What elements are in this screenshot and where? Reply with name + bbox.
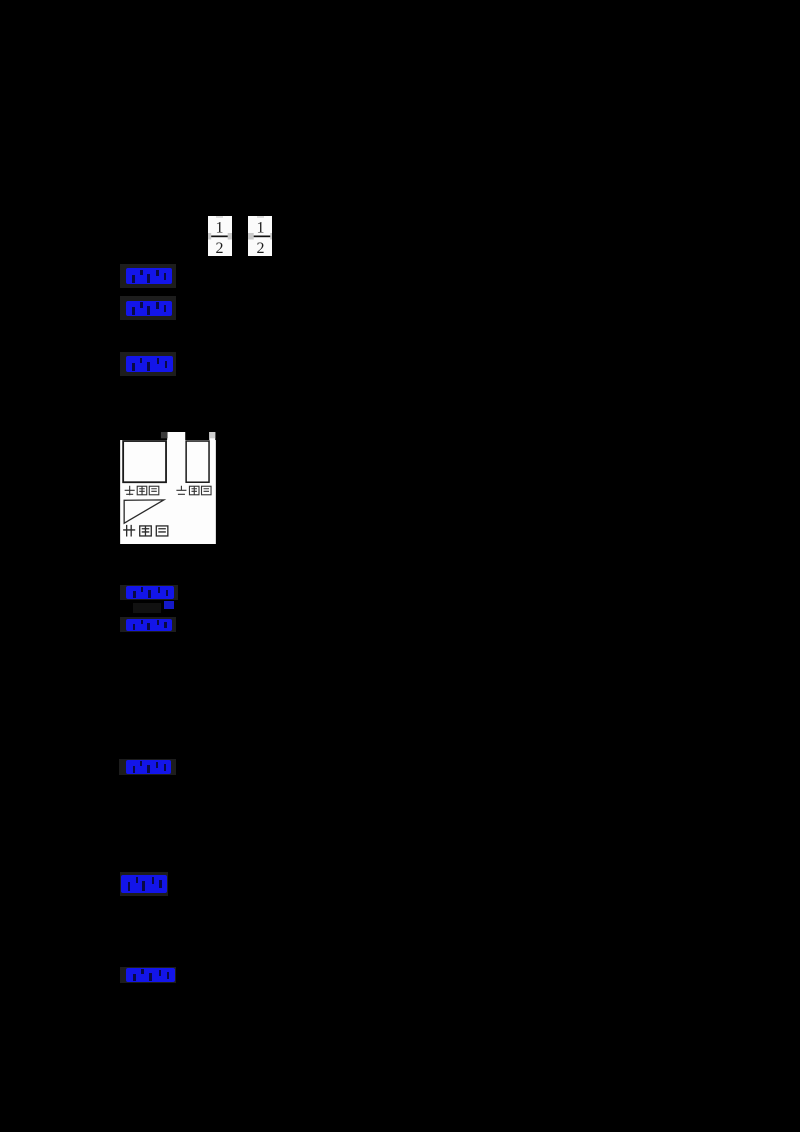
label 1: [120, 264, 176, 288]
top tab white B: [209, 432, 215, 441]
svg-text:1: 1: [256, 220, 264, 237]
square front view: [123, 441, 166, 482]
label zhushitu: [124, 486, 158, 496]
label fushitu: [123, 525, 168, 537]
top gray cap dark: [161, 432, 168, 438]
label 5: [120, 617, 176, 632]
faint middle row: [133, 603, 161, 613]
label 7: [120, 872, 168, 896]
fraction image 2 (1/2): [248, 216, 272, 256]
top gray cap light: [209, 432, 215, 438]
label 6: [119, 759, 177, 775]
triangle top view: [124, 500, 164, 523]
label 3: [120, 352, 176, 377]
rect left view: [186, 441, 209, 482]
svg-text:2: 2: [215, 240, 223, 256]
label 4: [120, 585, 178, 601]
white background main block: [120, 440, 216, 544]
three-view diagram image: [120, 432, 215, 544]
svg-text:1: 1: [215, 220, 223, 237]
label zuoshitu: [176, 486, 211, 495]
svg-text:2: 2: [256, 240, 264, 256]
label 2: [120, 296, 176, 320]
top tab white A: [167, 432, 185, 441]
fraction image 1 (1/2): [208, 216, 232, 256]
label 8: [120, 967, 176, 983]
